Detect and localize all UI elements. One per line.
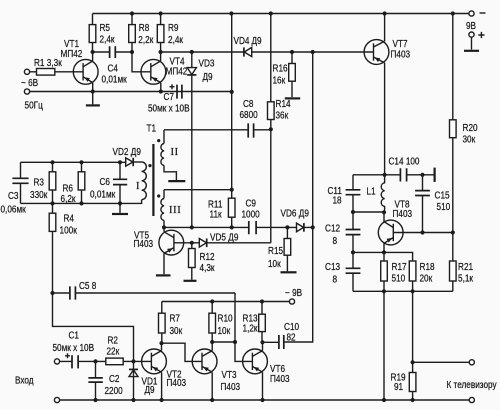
svg-text:C9: C9 [246,199,257,210]
node VT8-emitter [382,250,386,254]
svg-text:6800: 6800 [240,110,259,121]
node VT1-emitter [91,89,95,93]
transistor VT5 P403 [134,227,192,274]
node rail-R10 [210,299,214,303]
svg-text:R10: R10 [218,314,233,325]
svg-text:R21: R21 [458,262,473,273]
svg-text:C4: C4 [108,64,119,75]
node w3-VT5col [162,225,166,229]
node rail-R8 [130,11,134,15]
svg-text:C3: C3 [8,191,19,202]
svg-text:T1: T1 [147,124,157,135]
svg-text:R7: R7 [170,314,181,325]
svg-text:50мк х 10В: 50мк х 10В [148,104,190,115]
diode VD5 D9 [199,239,206,248]
svg-text:18: 18 [333,196,342,207]
svg-text:R2: R2 [108,336,119,347]
node rail-VT3e [210,398,214,402]
terminal output upper [469,360,474,365]
svg-text:22к: 22к [107,347,120,358]
ground C6 [119,203,121,213]
svg-text:50мк х 10В: 50мк х 10В [53,343,95,354]
svg-text:10к: 10к [268,259,281,270]
svg-text:Д9: Д9 [252,36,262,47]
svg-text:6,2к: 6,2к [61,194,77,205]
svg-text:I: I [136,181,140,192]
resistor R19 91 [409,373,416,392]
resistor R8 2,2k [131,14,133,53]
node rail-VD1 [131,398,135,402]
wire left osc section top y162.3 [21,161,126,163]
node R17-gnd-col [382,289,386,293]
diode VD3 D9 [191,52,193,227]
svg-text:100к: 100к [60,226,78,237]
node R4-C5 [50,291,54,295]
svg-text:L1: L1 [367,187,376,198]
wire VD1 to VT2 base [134,360,152,362]
wire VD5 to R14 column [270,129,272,243]
wire C11-C12 to VT8 collector [353,211,384,213]
node rail-C2 [93,398,97,402]
svg-text:R5: R5 [100,23,111,34]
svg-text:82: 82 [287,333,296,344]
node output tap [411,360,415,364]
svg-text:C15: C15 [435,191,450,202]
capacitor C11 18 [352,175,354,212]
wire winding III top to R11 [164,189,232,191]
svg-text:R15: R15 [268,246,283,257]
terminal input 6V lower [24,89,29,94]
svg-text:10к: 10к [218,326,231,337]
svg-text:91: 91 [394,382,403,393]
svg-text:R14: R14 [276,99,291,110]
svg-text:П403: П403 [270,374,290,385]
node R18-col [411,289,415,293]
resistor R18 20k [409,261,416,281]
wire -9V rail y301.5 [162,301,289,303]
capacitor C4 0,01mk [110,46,116,58]
svg-text:330к: 330к [30,190,48,201]
node VT1-collector [91,50,95,54]
node R6-top [79,160,83,164]
capacitor C7 50mk x 10V [177,85,182,99]
resistor R17 510 [383,252,385,291]
transistor VT8 P403 [378,200,452,253]
wire top supply rail y13.5 [93,13,472,15]
node VD3-top [190,50,194,54]
node C1-R2-C2 [93,359,97,363]
wire VT2 collector to VT3 base [162,343,203,361]
ground R16 [285,97,300,99]
svg-text:VD5 Д9: VD5 Д9 [210,233,239,244]
node C15-VT8base [420,230,424,234]
wire emitter rail y91.5 [30,91,232,93]
wire tank top y174.8 [353,174,434,176]
wire bottom rail y400 [60,399,470,401]
node L1-VT8col [382,210,386,214]
svg-text:R12: R12 [200,252,215,263]
node VD6-x312 [311,225,315,229]
terminal plus 9V [469,32,474,37]
svg-text:R1 3,3к: R1 3,3к [34,58,62,69]
svg-text:36к: 36к [276,111,289,122]
transistor VT2 P403 [142,343,187,400]
node rail-R19 [411,398,415,402]
node rail-R11col [229,11,233,15]
node phase I [148,164,151,167]
node rail-R9 [159,11,163,15]
svg-text:510: 510 [392,274,406,285]
node VT3-collector [210,340,214,344]
svg-text:0,06мк: 0,06мк [1,205,27,216]
node VT6-collector [260,340,264,344]
winding III [163,190,165,199]
node phase II [157,139,160,142]
svg-text:30к: 30к [170,326,183,337]
terminal output lower [469,397,474,402]
svg-text:C10: C10 [284,322,299,333]
wire R4 to VD1 node [53,293,134,361]
svg-text:II: II [171,147,179,158]
svg-text:50Гц: 50Гц [25,101,44,112]
wire left osc section bottom y203.4 [21,202,121,204]
svg-text:C7: C7 [164,92,175,103]
node rail-R20 [451,11,455,15]
node y52-x312col [311,50,315,54]
svg-text:Д9: Д9 [145,385,155,396]
svg-text:16к: 16к [273,76,286,87]
resistor R12 4,3k [191,243,193,280]
svg-text:C12: C12 [325,224,340,235]
resistor R13 1,2k [261,302,263,343]
svg-text:R8: R8 [139,23,150,34]
wire C5 feedback x235 [235,293,252,361]
resistor R9 2,4k [160,14,162,53]
diode VD2 D9 [126,158,133,166]
resistor R7 30k [161,302,163,344]
svg-text:2200: 2200 [105,386,124,397]
node R9-VT4col [159,50,163,54]
capacitor C5 8 [53,292,236,294]
svg-text:П403: П403 [221,382,241,393]
node C9-R15 [285,225,289,229]
node VT5-base-VD5 [190,241,194,245]
svg-text:П403: П403 [167,378,187,389]
node rail-R14 [269,11,273,15]
svg-text:VD3: VD3 [199,59,215,70]
terminal minus 9V [469,11,474,16]
wire emitter row y252.4 [353,252,413,261]
svg-text:2,2к: 2,2к [138,35,154,46]
svg-text:К телевизору: К телевизору [447,380,497,391]
winding I [133,161,141,163]
svg-text:C8: C8 [243,99,254,110]
transistor VT7 P403 [364,14,410,175]
node C6-top [118,160,122,164]
svg-text:C6: C6 [100,177,111,188]
node phase III [157,194,160,197]
svg-text:III: III [169,205,181,216]
resistor R11 11k [231,14,233,228]
svg-text:R16: R16 [273,64,288,75]
node rail-R13 [260,299,264,303]
svg-text:5,1к: 5,1к [458,274,474,285]
node R3-bottom [50,201,54,205]
node rail-VT7 [383,11,387,15]
node C14-C15 [420,173,424,177]
node R14-C8 [269,127,273,131]
wire y227 row [164,226,313,228]
svg-text:Вход: Вход [15,376,34,387]
resistor R20 30k [452,14,454,233]
diode VD4 D9 [243,47,245,56]
svg-text:C13: C13 [325,262,340,273]
svg-text:R3: R3 [34,178,45,189]
node R20-R21-VT8 [451,230,455,234]
svg-text:VD4: VD4 [234,36,250,47]
resistor R2 22k [96,360,134,362]
node y52-R16 [290,50,294,54]
wire x312 vertical [284,52,313,342]
ground VT5 [156,274,171,276]
ground VT1 [92,92,94,105]
svg-text:8: 8 [333,275,338,286]
capacitor C10 82 [279,335,284,349]
ground R12 [184,280,197,282]
capacitor C8 6800 [248,123,253,137]
resistor R16 16k [291,52,293,97]
capacitor C9 1000 [249,221,256,234]
node R6-bottom [79,201,83,205]
node x235-y342 [233,340,237,344]
svg-text:11к: 11к [210,210,223,221]
inductor L1 [381,175,384,213]
resistor R4 100k [52,203,54,293]
svg-text:2,4к: 2,4к [100,35,116,46]
svg-text:− 9В: − 9В [285,288,302,299]
wire VT4 base jog [132,52,151,72]
svg-text:20к: 20к [420,274,433,285]
node C6-bottom [118,201,122,205]
svg-text:R4: R4 [64,214,75,225]
node rail-VT2e [160,398,164,402]
capacitor C13 8 [352,252,354,291]
svg-text:VT7: VT7 [393,39,408,50]
wire R18 column down [412,291,414,372]
svg-text:R6: R6 [63,184,74,195]
terminal input 6V upper [24,69,29,74]
resistor R15 10k [286,227,288,271]
transistor VT6 P403 [243,342,290,400]
svg-text:2,4к: 2,4к [168,35,184,46]
node C11-C12 [351,210,355,214]
svg-text:VT3: VT3 [222,370,237,381]
svg-text:510: 510 [437,202,451,213]
svg-text:МП42: МП42 [61,49,83,60]
node R3-top [50,160,54,164]
resistor R5 2,4k [92,14,94,53]
terminal input upper [54,359,59,364]
node VT4-emitter [159,89,163,93]
node rail-R17col [382,398,386,402]
transistor VT1 MP42 [61,39,99,92]
svg-text:9В: 9В [466,21,476,32]
svg-text:R17: R17 [392,262,407,273]
svg-text:VD6 Д9: VD6 Д9 [281,209,310,220]
diode VD1 D9 [133,361,135,400]
svg-text:0,01мк: 0,01мк [102,75,128,86]
node R11-bottom [230,225,234,229]
transistor VT4 MP42 [141,52,188,92]
wire y52 C4 row [93,51,374,53]
svg-text:4,3к: 4,3к [200,263,216,274]
terminal input lower [54,397,59,402]
resistor R6 6,2k [81,162,83,203]
node C12-C13 [351,250,355,254]
svg-text:VD2 Д9: VD2 Д9 [113,147,142,158]
ground winding II [168,180,185,182]
capacitor C6 0,01mk [119,162,121,203]
svg-text:1000: 1000 [242,210,261,221]
resistor R10 10k [211,302,213,343]
svg-text:П403: П403 [134,239,154,250]
node VD3-y227 [190,225,194,229]
svg-text:МП42: МП42 [166,67,188,78]
node VD1-top [131,359,135,363]
resistor R14 36k [270,14,272,130]
wire VT3 collector to x235 [212,341,235,343]
svg-text:30к: 30к [463,135,476,146]
svg-text:R9: R9 [168,23,179,34]
resistor R3 330k [52,162,54,203]
node VT2-collector [159,341,163,345]
svg-text:C1: C1 [69,331,80,342]
wire VT6 collector to C10 [263,341,279,343]
resistor R1 3,3k [30,71,84,73]
node C7-R11col [230,90,234,94]
capacitor C2 2200 [95,361,97,400]
wire output tap [413,361,470,363]
capacitor C14 100 [400,168,406,181]
node R11-top [230,188,234,192]
svg-text:C14 100: C14 100 [389,157,420,168]
node C4-R8 [130,50,134,54]
svg-text:0,01мк: 0,01мк [90,190,116,201]
transistor VT3 P403 [192,342,240,400]
wire resistor bottoms y291.3 [353,290,453,292]
node rail-VT6e [260,398,264,402]
capacitor C3 0,06mk [20,162,22,203]
capacitor C1 50mk x 10V [60,360,96,362]
ground R15 [281,271,297,273]
svg-text:П403: П403 [393,209,413,220]
svg-text:~ 6В: ~ 6В [21,78,38,89]
diode VD6 D9 [297,223,304,232]
svg-text:8: 8 [333,236,338,247]
wire winding II to ground [164,165,176,180]
svg-text:C2: C2 [109,374,120,385]
terminal -9V [289,299,294,304]
wire C8 row y129.6 [164,129,271,131]
svg-text:C5 8: C5 8 [79,281,97,292]
wire R17 column to bottom rail [383,291,385,400]
ground battery plus [471,37,473,49]
capacitor C15 510 [422,175,424,233]
winding II [163,130,165,144]
resistor R21 5,1k [452,233,454,292]
core T1 [152,144,154,216]
svg-text:1,2к: 1,2к [243,324,259,335]
svg-text:R20: R20 [463,123,478,134]
svg-text:R18: R18 [420,262,435,273]
svg-text:Д9: Д9 [203,72,213,83]
wire C14 output stub bar [434,168,436,182]
node tank-VT7 [383,173,387,177]
svg-text:П403: П403 [391,50,411,61]
capacitor C12 8 [352,212,354,252]
